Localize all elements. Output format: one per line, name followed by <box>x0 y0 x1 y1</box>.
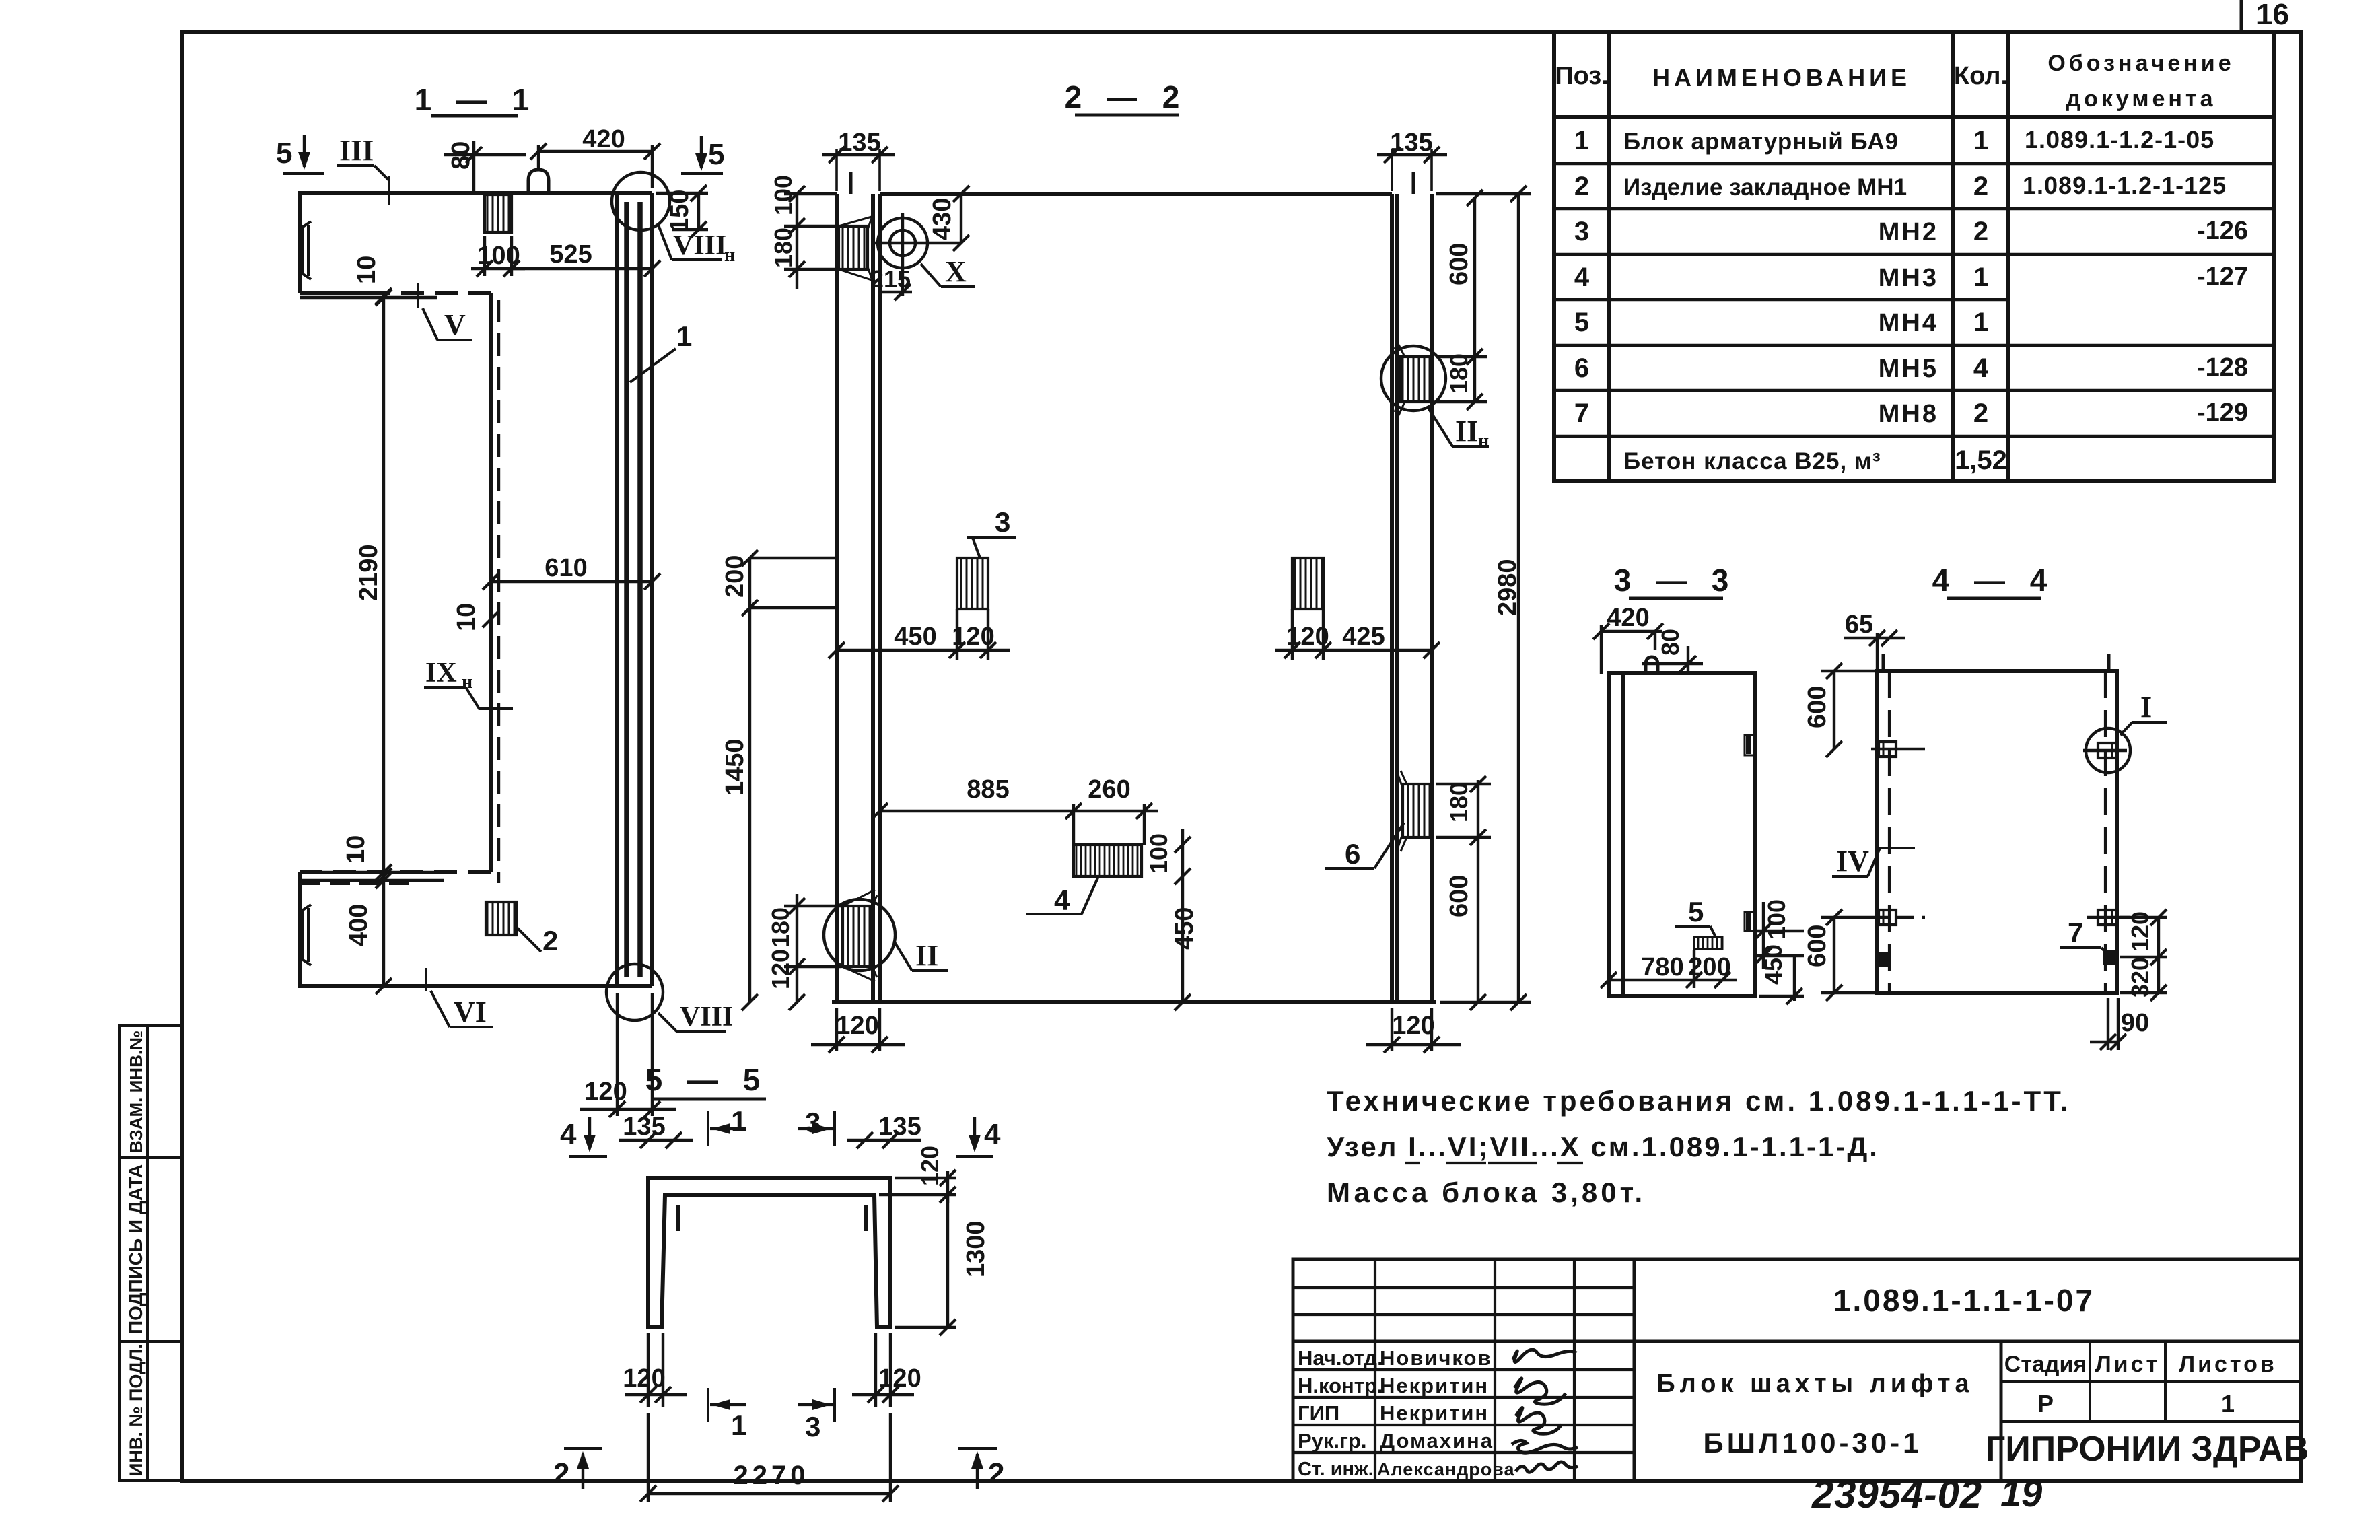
svg-text:180: 180 <box>769 228 797 268</box>
svg-text:ИНВ. № ПОДЛ.: ИНВ. № ПОДЛ. <box>126 1343 146 1476</box>
svg-text:Узел I...VI;VII...X см.1.089.1: Узел I...VI;VII...X см.1.089.1-1.1-1-Д. <box>1327 1131 1879 1162</box>
dim 420 view 3-3 <box>1593 604 1663 674</box>
svg-text:Поз.: Поз. <box>1555 62 1608 90</box>
dim 450 120 left mid <box>829 609 1010 660</box>
node label IX-н <box>424 658 513 709</box>
embed hatch 6 right bottom <box>1397 771 1431 851</box>
dim 2270 <box>640 1413 899 1502</box>
svg-text:4 — 4: 4 — 4 <box>1932 563 2056 598</box>
svg-text:н: н <box>724 245 735 266</box>
svg-text:1450: 1450 <box>721 738 749 796</box>
svg-text:VI: VI <box>454 995 487 1028</box>
dim 1300 5-5 <box>895 1195 990 1335</box>
svg-text:МН8: МН8 <box>1879 400 1938 428</box>
strip label Инв. № подл. <box>126 1343 146 1476</box>
detail circle X <box>873 213 961 296</box>
node label II-н <box>1428 408 1489 452</box>
dim 2190 <box>300 289 438 994</box>
svg-text:90: 90 <box>2121 1009 2149 1037</box>
svg-text:525: 525 <box>549 240 592 269</box>
svg-text:150: 150 <box>666 190 694 232</box>
svg-text:Некритин: Некритин <box>1380 1374 1489 1397</box>
svg-text:780: 780 <box>1641 953 1683 981</box>
svg-text:5: 5 <box>1574 308 1589 337</box>
view 2-2 left wall <box>837 194 880 1002</box>
dim 600 lower left view 4-4 <box>1803 909 1877 1001</box>
callout 2 leader <box>514 925 558 956</box>
table row 7 <box>1574 398 2248 428</box>
dim 120 425 right mid <box>1275 609 1440 660</box>
signature row Н.контр. Некритин <box>1298 1374 1489 1397</box>
signature row Ст.инж. Александрова <box>1298 1459 1515 1480</box>
svg-text:2: 2 <box>1973 398 1988 428</box>
section marker 5 left <box>276 135 324 174</box>
section marker 5 right <box>681 136 724 174</box>
view 5-5 title <box>645 1062 769 1099</box>
svg-text:МН2: МН2 <box>1879 218 1938 246</box>
dim 65 view 4-4 <box>1844 610 1905 673</box>
svg-text:65: 65 <box>1845 610 1873 639</box>
dim 120 below left wall <box>811 1008 905 1053</box>
embed hatch 5 <box>1694 937 1722 949</box>
svg-text:1,52: 1,52 <box>1955 446 2007 475</box>
svg-text:н: н <box>1478 431 1489 452</box>
svg-text:МН3: МН3 <box>1879 264 1938 292</box>
embed МН2 hatch right top <box>1395 345 1432 415</box>
dim 80 view 1-1 <box>444 141 526 193</box>
svg-text:425: 425 <box>1342 623 1385 651</box>
svg-text:ГИП: ГИП <box>1298 1401 1339 1425</box>
section arrows 1 3 bottom <box>708 1388 835 1442</box>
svg-text:180: 180 <box>1445 782 1473 823</box>
bottom sheet number 19 <box>2000 1472 2042 1514</box>
embed plate right edge upper <box>1745 735 1755 755</box>
table row 6 <box>1574 353 2248 383</box>
section marker 4 left <box>560 1117 607 1156</box>
table row 2 <box>1574 172 2227 201</box>
dim 135 right top 5-5 <box>847 1113 921 1148</box>
doc number 1.089.1-1.1-1-07 <box>1833 1283 2095 1318</box>
svg-text:600: 600 <box>1445 243 1473 285</box>
svg-text:1: 1 <box>1973 126 1988 155</box>
dims 600 180 right top <box>1436 190 1487 410</box>
stamp sheet count 1 <box>2221 1390 2235 1417</box>
view 1-1 embed hatch bottom pos2 <box>486 902 516 935</box>
svg-text:3 — 3: 3 — 3 <box>1614 563 1737 598</box>
svg-text:260: 260 <box>1088 775 1130 804</box>
svg-text:II: II <box>1455 415 1478 448</box>
view 1-1 bottom flange outline <box>300 872 652 986</box>
view 2-2 title <box>1065 79 1188 115</box>
svg-text:885: 885 <box>967 775 1009 804</box>
signature row Рук.гр. Домахина <box>1298 1429 1494 1452</box>
svg-text:Обозначение: Обозначение <box>2048 50 2234 76</box>
view 1-1 wall lines <box>617 193 652 986</box>
svg-text:420: 420 <box>582 125 625 153</box>
svg-text:Бетон класса В25, м³: Бетон класса В25, м³ <box>1623 448 1881 475</box>
view 5-5 inner plate ticks <box>678 1205 866 1231</box>
svg-text:135: 135 <box>838 129 880 157</box>
svg-text:135: 135 <box>623 1113 665 1141</box>
dim line 200 1450 left <box>721 550 835 1010</box>
svg-text:IV: IV <box>1836 845 1869 878</box>
svg-text:1.089.1-1.2-1-05: 1.089.1-1.2-1-05 <box>2025 126 2214 153</box>
svg-text:19: 19 <box>2000 1472 2042 1514</box>
section marker 4 right <box>956 1117 1001 1156</box>
svg-text:Н.контр.: Н.контр. <box>1298 1374 1383 1397</box>
svg-text:Нач.отд.: Нач.отд. <box>1298 1346 1383 1370</box>
svg-text:1.089.1-1.1-1-07: 1.089.1-1.1-1-07 <box>1833 1283 2095 1318</box>
svg-text:100: 100 <box>1145 833 1172 874</box>
view 1-1 lifting loop <box>528 170 549 193</box>
svg-text:1300: 1300 <box>962 1220 990 1277</box>
embed hatch 3 right <box>1292 558 1323 609</box>
svg-text:7: 7 <box>2068 917 2083 948</box>
svg-text:4: 4 <box>1973 353 1989 383</box>
dim 100 view 1-1 <box>471 236 525 277</box>
stamp text БШЛ100-30-1 <box>1704 1427 1922 1459</box>
svg-text:-126: -126 <box>2197 217 2248 245</box>
svg-text:610: 610 <box>545 554 587 582</box>
svg-text:Стадия: Стадия <box>2004 1352 2087 1377</box>
table row 1 <box>1574 126 2214 155</box>
svg-text:120: 120 <box>1392 1012 1434 1040</box>
svg-text:120: 120 <box>767 949 794 989</box>
table header Кол. <box>1954 62 2008 90</box>
svg-text:2: 2 <box>542 925 558 956</box>
svg-text:ГИПРОНИИ ЗДРАВ: ГИПРОНИИ ЗДРАВ <box>1986 1430 2309 1469</box>
svg-text:16: 16 <box>2256 0 2289 31</box>
svg-text:Блок шахты лифта: Блок шахты лифта <box>1656 1370 1973 1398</box>
view 2-2 top edge <box>880 192 1392 196</box>
detail circle II <box>824 899 895 971</box>
note line 3 масса блока <box>1327 1177 1646 1208</box>
svg-text:X: X <box>945 255 967 288</box>
table header Обозначение документа <box>2048 50 2234 112</box>
table header Наименование <box>1652 64 1911 92</box>
detail circle II-н <box>1381 346 1446 411</box>
embed hatch 4 <box>1074 845 1142 876</box>
svg-text:V: V <box>444 308 466 341</box>
svg-text:135: 135 <box>1390 129 1432 157</box>
svg-text:4: 4 <box>984 1118 1001 1151</box>
rebar stub left top <box>849 172 853 194</box>
bottom archive number 23954-02 <box>1811 1473 1982 1516</box>
svg-text:II: II <box>915 939 938 972</box>
svg-text:1: 1 <box>1574 126 1589 155</box>
dim 100 450 right of hatch4 <box>1145 829 1199 1010</box>
svg-text:5: 5 <box>708 138 724 171</box>
view 4-4 outline <box>1877 671 2117 993</box>
svg-text:400: 400 <box>345 904 373 946</box>
embed plate left small <box>1879 952 1889 966</box>
svg-text:2190: 2190 <box>355 544 383 601</box>
dim 135 left top 5-5 <box>619 1113 693 1148</box>
svg-text:3: 3 <box>1574 217 1589 246</box>
svg-text:МН5: МН5 <box>1879 355 1938 383</box>
callout 3 <box>967 506 1016 558</box>
stamp stage Р <box>2037 1390 2054 1417</box>
section marker 2 left <box>553 1448 602 1490</box>
svg-text:5: 5 <box>276 137 292 170</box>
svg-text:80: 80 <box>1656 629 1684 656</box>
dim 10 bottom web <box>300 835 444 888</box>
svg-text:450: 450 <box>1170 907 1199 950</box>
embed plate right edge lower <box>1745 912 1755 931</box>
dim 525 view 1-1 <box>512 240 660 279</box>
table row concrete <box>1623 446 2007 475</box>
signature row Нач.отд. Новичков <box>1298 1346 1492 1370</box>
dim 780 200 view 3-3 <box>1601 950 1737 988</box>
svg-text:4: 4 <box>1574 262 1590 292</box>
svg-text:6: 6 <box>1574 353 1589 383</box>
view 4-4 dashed axes <box>1889 671 2105 993</box>
signature row ГИП Некритин <box>1298 1401 1489 1425</box>
dims 100 180 left top <box>769 175 839 289</box>
svg-text:180: 180 <box>1445 353 1473 394</box>
svg-text:2: 2 <box>988 1457 1004 1490</box>
node label I <box>2120 691 2167 735</box>
view 5-5 outline <box>648 1178 890 1327</box>
svg-text:10: 10 <box>342 835 370 864</box>
svg-text:120: 120 <box>584 1078 627 1106</box>
callout 7 <box>2060 917 2109 956</box>
svg-text:Р: Р <box>2037 1390 2054 1417</box>
view 2-2 right wall <box>1392 194 1432 1002</box>
embed plate right small <box>2103 950 2114 964</box>
svg-text:1 — 1: 1 — 1 <box>415 82 538 117</box>
svg-text:1: 1 <box>2221 1390 2235 1417</box>
svg-text:10: 10 <box>353 256 381 284</box>
dim 135 right wall <box>1377 129 1447 191</box>
table row 3 <box>1574 217 2248 246</box>
strip label Взам. инв. № <box>126 1030 146 1153</box>
dim 120 right leg bottom <box>852 1333 921 1407</box>
callout 1 leader <box>630 320 692 382</box>
svg-text:5 — 5: 5 — 5 <box>645 1062 769 1097</box>
svg-text:Домахина: Домахина <box>1380 1429 1494 1452</box>
section marker 2 right <box>958 1448 1004 1490</box>
svg-text:Технические требования см. 1.0: Технические требования см. 1.089.1-1.1-1… <box>1327 1085 2071 1117</box>
svg-text:-129: -129 <box>2197 398 2248 427</box>
table row 4 <box>1574 262 2248 292</box>
svg-text:3: 3 <box>995 506 1010 538</box>
node label II <box>894 939 948 972</box>
node label V <box>418 283 473 341</box>
view 3-3 lifting loop <box>1646 657 1658 673</box>
embed plate right lower <box>2087 910 2130 925</box>
svg-text:120: 120 <box>916 1146 944 1186</box>
svg-text:600: 600 <box>1445 875 1473 917</box>
svg-text:-128: -128 <box>2197 353 2248 382</box>
handwritten signature squiggles <box>1512 1350 1578 1472</box>
svg-text:III: III <box>339 134 374 167</box>
svg-text:100: 100 <box>1763 899 1790 940</box>
node label VIII-н top <box>658 225 735 266</box>
left margin strip boxes <box>120 1026 182 1481</box>
svg-text:2: 2 <box>1973 217 1988 246</box>
svg-text:6: 6 <box>1345 838 1360 870</box>
svg-text:БШЛ100-30-1: БШЛ100-30-1 <box>1704 1427 1922 1459</box>
svg-text:Некритин: Некритин <box>1380 1401 1489 1425</box>
dim 120 below right wall <box>1366 1008 1461 1053</box>
svg-text:IX: IX <box>425 658 457 689</box>
dim 90 below view 4-4 <box>2090 998 2149 1050</box>
dim 80 view 3-3 <box>1642 629 1703 674</box>
svg-text:МН4: МН4 <box>1879 309 1938 337</box>
svg-text:120: 120 <box>623 1364 665 1393</box>
svg-text:4: 4 <box>1054 884 1070 916</box>
svg-text:Новичков: Новичков <box>1380 1346 1492 1370</box>
dim 400 bottom left <box>300 864 438 946</box>
node label III <box>337 134 389 205</box>
view 1-1 keyway top <box>303 221 311 279</box>
view 1-1 embed plate hatch top <box>485 195 512 232</box>
stamp header Лист <box>2095 1352 2160 1377</box>
dim 150 view 1-1 right <box>656 185 708 238</box>
svg-text:3: 3 <box>805 1411 820 1442</box>
stadia list grid <box>2001 1341 2301 1422</box>
dim 10 mid web <box>452 603 499 631</box>
svg-text:1: 1 <box>731 1105 746 1137</box>
svg-text:ПОДПИСЬ И ДАТА: ПОДПИСЬ И ДАТА <box>125 1164 146 1334</box>
svg-text:135: 135 <box>878 1113 921 1141</box>
stamp header Стадия <box>2004 1352 2087 1377</box>
view 3-3 title <box>1614 563 1737 598</box>
svg-text:5: 5 <box>1688 896 1704 928</box>
dim 2980 <box>1436 186 1531 1010</box>
callout 6 <box>1325 823 1404 870</box>
embed plate left lower <box>1871 910 1925 925</box>
embed plate left upper <box>1871 742 1925 757</box>
parts table grid <box>1554 32 2274 481</box>
stamp header Листов <box>2179 1352 2277 1377</box>
svg-text:Рук.гр.: Рук.гр. <box>1298 1429 1367 1452</box>
node label VIII bottom <box>658 1002 733 1032</box>
svg-text:документа: документа <box>2066 86 2216 112</box>
svg-text:НАИМЕНОВАНИЕ: НАИМЕНОВАНИЕ <box>1652 64 1911 92</box>
svg-text:VIII: VIII <box>680 1002 733 1032</box>
dim 430 <box>928 186 969 251</box>
svg-text:I: I <box>2140 691 2152 724</box>
detail circle I <box>2086 728 2130 773</box>
svg-text:120: 120 <box>836 1012 878 1040</box>
svg-text:600: 600 <box>1803 925 1831 967</box>
svg-text:VIII: VIII <box>673 230 726 261</box>
view 1-1 keyway bottom <box>303 905 311 965</box>
svg-text:Ст. инж.: Ст. инж. <box>1298 1459 1374 1480</box>
svg-text:Масса блока 3,80т.: Масса блока 3,80т. <box>1327 1177 1646 1208</box>
view 4-4 title <box>1932 563 2056 598</box>
svg-text:ВЗАМ. ИНВ.№: ВЗАМ. ИНВ.№ <box>126 1030 146 1153</box>
svg-text:1.089.1-1.2-1-125: 1.089.1-1.2-1-125 <box>2023 172 2227 199</box>
svg-text:7: 7 <box>1574 398 1589 428</box>
dim 10 top web <box>353 256 392 304</box>
title block signature grid <box>1293 1259 1634 1481</box>
view 1-1 title <box>415 82 538 117</box>
view 1-1 bottom detail circle VIII <box>606 964 663 1020</box>
dims 180 120 left bottom <box>767 894 841 1010</box>
strip label Подпись и дата <box>125 1164 146 1334</box>
dim 120 view 1-1 bottom <box>580 993 676 1117</box>
dim 135 left wall <box>823 129 895 191</box>
svg-text:2: 2 <box>1973 172 1988 201</box>
svg-text:Блок арматурный БА9: Блок арматурный БА9 <box>1623 129 1899 155</box>
dim 885 260 <box>872 775 1158 845</box>
note line 1 technical requirements <box>1327 1085 2071 1117</box>
organization ГИПРОНИИ ЗДРАВ <box>1986 1430 2309 1469</box>
callout 4 <box>1026 876 1098 916</box>
dims 180 600 right bottom <box>1436 776 1491 1010</box>
svg-text:Лист: Лист <box>2095 1352 2160 1377</box>
dim 610 <box>483 554 660 590</box>
svg-text:450: 450 <box>894 623 936 651</box>
svg-text:430: 430 <box>928 198 956 240</box>
svg-text:420: 420 <box>1607 604 1649 632</box>
stamp text Блок шахты лифта <box>1656 1370 1973 1398</box>
dim 420 view 1-1 <box>530 125 660 188</box>
svg-text:Кол.: Кол. <box>1954 62 2008 90</box>
svg-text:Изделие закладное МН1: Изделие закладное МН1 <box>1623 174 1907 201</box>
table header Поз. <box>1555 62 1608 90</box>
dims 100 450 view 3-3 right <box>1755 899 1804 1004</box>
svg-text:2: 2 <box>1574 172 1589 201</box>
rebar stubs top view 4-4 <box>1883 654 2109 671</box>
view 1-1 top flange outline <box>300 193 652 883</box>
svg-text:Листов: Листов <box>2179 1352 2277 1377</box>
dim 120 flange 5-5 <box>879 1146 956 1203</box>
title block outline <box>1293 1259 2301 1481</box>
embed МН5 hatch left bottom <box>843 890 877 981</box>
section arrows 1 3 top <box>708 1105 835 1146</box>
node label X <box>921 255 975 288</box>
table row 5 <box>1574 308 1988 337</box>
embed МН1 hatch left top <box>839 214 873 283</box>
svg-text:1: 1 <box>676 320 692 352</box>
callout 5 view 3-3 <box>1675 896 1716 937</box>
dim 600 top left view 4-4 <box>1803 663 1878 757</box>
dim 120 left leg bottom <box>623 1333 687 1407</box>
svg-text:4: 4 <box>560 1118 577 1151</box>
note line 2 узлы <box>1327 1131 1879 1163</box>
view 2-2 bottom edge <box>832 1000 1436 1004</box>
dim 215 <box>870 265 912 300</box>
embed plate right upper <box>2083 743 2127 758</box>
svg-text:1: 1 <box>1973 308 1988 337</box>
node label VI <box>426 968 493 1028</box>
svg-text:10: 10 <box>452 603 481 631</box>
view 3-3 outline <box>1609 673 1755 996</box>
page number 16 top right <box>2241 0 2289 31</box>
rebar stub right top <box>1412 172 1415 194</box>
view 1-1 reinforcement bars <box>627 202 640 977</box>
svg-text:Александрова: Александрова <box>1377 1459 1515 1479</box>
svg-text:-127: -127 <box>2197 262 2248 291</box>
embed hatch 3 left <box>957 558 988 609</box>
svg-text:600: 600 <box>1803 686 1831 728</box>
dims 120 320 right view 4-4 <box>2120 909 2167 1001</box>
view 1-1 top detail circle VIII-н <box>612 172 670 230</box>
svg-text:120: 120 <box>878 1364 921 1393</box>
svg-text:2 — 2: 2 — 2 <box>1065 79 1188 114</box>
svg-text:2: 2 <box>553 1457 569 1490</box>
svg-text:1: 1 <box>731 1409 746 1441</box>
node label IV <box>1832 845 1915 878</box>
svg-text:2270: 2270 <box>734 1461 810 1490</box>
svg-text:1: 1 <box>1973 262 1988 292</box>
